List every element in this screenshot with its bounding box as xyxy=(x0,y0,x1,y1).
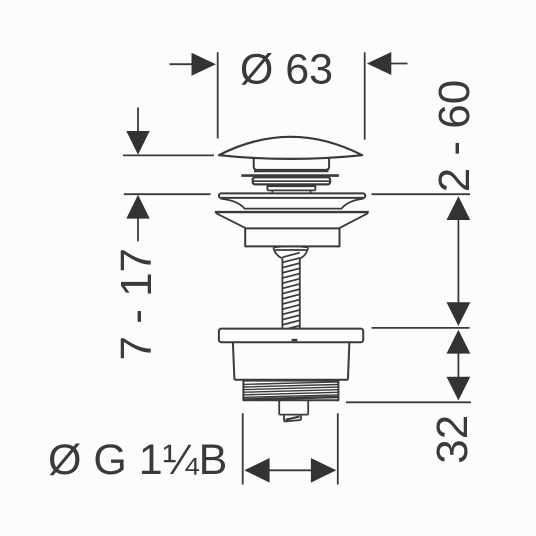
bottom left extension line xyxy=(242,413,244,484)
dim 32 down arrow xyxy=(447,377,471,401)
rod head dome xyxy=(273,246,308,258)
rod tip mark xyxy=(292,339,298,341)
svg-text:Ø 63: Ø 63 xyxy=(240,46,333,94)
svg-text:32: 32 xyxy=(428,415,477,464)
svg-text:2 - 60: 2 - 60 xyxy=(430,80,479,193)
dim 7-17 lower arrow xyxy=(126,195,149,242)
left reference line flange top xyxy=(124,193,211,195)
outlet stub xyxy=(279,400,308,414)
threaded outlet block xyxy=(243,381,338,401)
seal band xyxy=(253,177,330,184)
bottom dim right arrow xyxy=(311,458,336,483)
washer rim xyxy=(215,211,369,213)
stepped spacers xyxy=(267,186,315,193)
bottom right extension line xyxy=(337,413,339,484)
left reference line cap bottom xyxy=(123,154,214,156)
dim Ø63 left arrow xyxy=(170,53,216,76)
wide washer line xyxy=(241,174,339,177)
dim 2-60 down arrow xyxy=(447,302,471,326)
trumpet seal under flange xyxy=(221,199,364,209)
dim 7-17 upper arrow xyxy=(126,108,149,155)
dim 32 shaft xyxy=(457,345,459,385)
upper cylinder xyxy=(245,228,339,246)
cap xyxy=(219,137,362,159)
cone skirt xyxy=(216,213,368,228)
dim Ø63 right extension line xyxy=(364,52,366,139)
dim 32 up arrow xyxy=(447,330,471,354)
neck under cap xyxy=(254,159,329,171)
lower body xyxy=(233,342,350,379)
right reference line flange top xyxy=(372,193,471,195)
right reference line plate top xyxy=(372,327,470,329)
flange top plate xyxy=(219,193,365,198)
dim 2-60 up arrow xyxy=(447,196,471,220)
mounting plate xyxy=(219,329,363,343)
right reference line thread bottom xyxy=(346,401,471,403)
svg-text:7 - 17: 7 - 17 xyxy=(112,248,161,361)
bottom dim left arrow xyxy=(244,458,269,483)
bottom nub xyxy=(284,415,301,422)
dim 2-60 shaft xyxy=(457,212,459,310)
svg-text:Ø G 1¼B: Ø G 1¼B xyxy=(48,436,227,484)
bottom dim shaft xyxy=(246,469,335,471)
dim Ø63 right arrow xyxy=(367,52,408,75)
dim Ø63 left extension line xyxy=(217,52,219,138)
threaded rod xyxy=(281,252,301,330)
